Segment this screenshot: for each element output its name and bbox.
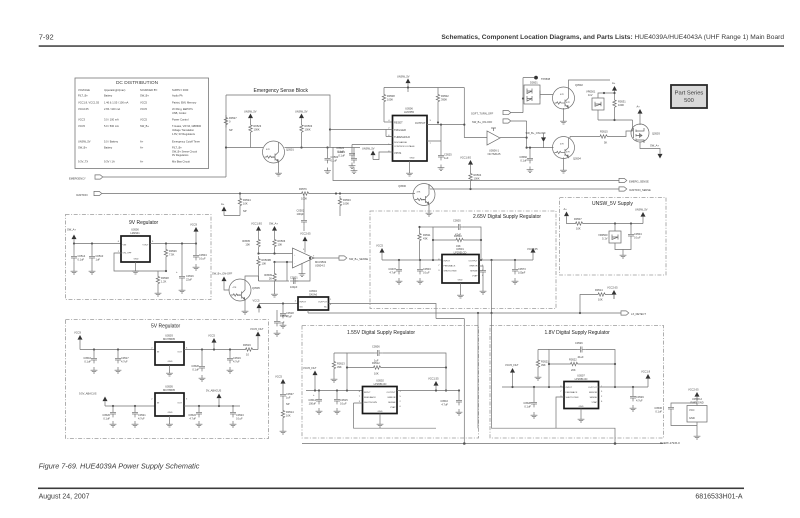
svg-text:100pF: 100pF [518, 271, 526, 275]
wire: divider tops [259, 235, 275, 237]
svg-text:OUT: OUT [177, 403, 182, 405]
svg-text:DISCHARGE: DISCHARGE [394, 141, 408, 144]
junction dots loop [432, 239, 482, 261]
capacitor C0524 (control voltage) 0.1uF [336, 145, 392, 169]
power arrow A+ with resistor R0524 10K NP [221, 194, 251, 216]
svg-text:C0517: C0517 [121, 356, 129, 360]
svg-text:100K: 100K [254, 128, 260, 132]
wire: 1.8V input rail [502, 386, 564, 388]
svg-text:C0504: C0504 [199, 253, 207, 257]
svg-text:FEEDBACK: FEEDBACK [444, 265, 456, 268]
svg-text:R0576: R0576 [299, 187, 307, 191]
svg-text:1uF: 1uF [280, 321, 285, 325]
wire: U0504 output run [329, 304, 465, 319]
node VCC5_FILT (1.55V input) [303, 366, 318, 391]
svg-text:0.1uF: 0.1uF [103, 417, 110, 421]
svg-text:LX_DETECT: LX_DETECT [631, 312, 646, 316]
svg-text:VCC5_FILT: VCC5_FILT [505, 363, 519, 367]
svg-text:6816533H01-A: 6816533H01-A [695, 494, 742, 501]
svg-text:GND: GND [378, 411, 383, 413]
svg-text:C0510: C0510 [440, 399, 448, 403]
svg-text:C0528: C0528 [523, 401, 531, 405]
wire: 5V row1 output rail [184, 349, 243, 351]
buffer U0504 SX0A6 [295, 289, 332, 310]
power arrow VCC1.8 [641, 370, 651, 384]
svg-text:R0526: R0526 [169, 249, 177, 253]
svg-text:SW_B+ Sense Circuit: SW_B+ Sense Circuit [172, 149, 197, 153]
svg-text:LP2951CD: LP2951CD [374, 382, 387, 386]
svg-text:C0437: C0437 [388, 267, 396, 271]
svg-text:SHUTDOWN: SHUTDOWN [566, 397, 579, 399]
capacitor C0537 1uF NP [280, 391, 294, 408]
svg-text:C0536: C0536 [654, 406, 662, 410]
svg-text:CONTROLVOLTAGE: CONTROLVOLTAGE [394, 145, 415, 148]
ground under U0502 [377, 414, 384, 428]
svg-text:R0504: R0504 [474, 173, 482, 177]
svg-text:47K: 47K [560, 94, 564, 96]
svg-text:INPUT: INPUT [444, 261, 451, 263]
svg-text:C0516: C0516 [83, 356, 91, 360]
svg-text:VCC2.65: VCC2.65 [78, 107, 89, 111]
wire: Q0500 collector to sense line [428, 184, 430, 189]
svg-text:100pF: 100pF [290, 285, 298, 289]
svg-text:EMERG_SENSE: EMERG_SENSE [629, 180, 649, 184]
wire: 555 output to buffer [427, 125, 487, 138]
ground under 555 [406, 161, 413, 176]
capacitor C0518 47uF [280, 304, 295, 329]
svg-text:THRESHOLD: THRESHOLD [394, 135, 410, 139]
svg-text:C0520: C0520 [191, 364, 199, 368]
svg-text:INPUT: INPUT [364, 392, 371, 394]
regulator U0503 MC78M05 [151, 334, 188, 366]
svg-text:U0504-2: U0504-2 [315, 264, 326, 268]
wire: C0505 bypass loop [433, 227, 481, 260]
svg-text:47K: 47K [560, 144, 564, 146]
svg-text:R0527: R0527 [229, 116, 237, 120]
power arrow SW_A+ (9V input) [67, 228, 77, 244]
capacitor C0526 .1uF [575, 341, 585, 359]
wire: shutdown run into 1.55V box [354, 319, 465, 444]
junction dots 2.65V out [490, 259, 516, 261]
capacitor C0572 (sense bypass) [479, 266, 486, 294]
transistor Q0505 [229, 279, 260, 301]
svg-text:VOLTAGE: VOLTAGE [78, 88, 90, 92]
wire: Q0504 collector [569, 137, 571, 139]
capacitor C0517 4.7uF [115, 350, 130, 374]
svg-text:VOUT: VOUT [142, 245, 149, 247]
svg-text:R0523: R0523 [254, 124, 262, 128]
capacitor C0560 0.1uF [519, 147, 533, 173]
svg-text:LP2951CD: LP2951CD [575, 377, 588, 381]
svg-text:SW_B+_ON-OFF: SW_B+_ON-OFF [212, 272, 233, 276]
capacitor C0519 4.7uF [227, 350, 242, 374]
svg-text:ERROR: ERROR [470, 266, 478, 268]
svg-text:U0506: U0506 [405, 107, 413, 111]
svg-text:GND: GND [410, 158, 415, 160]
svg-text:C0504: C0504 [634, 232, 642, 236]
svg-text:U0504: U0504 [309, 289, 317, 293]
svg-text:1.46 & 1.55 / 100 mA: 1.46 & 1.55 / 100 mA [104, 101, 129, 105]
capacitor C0515 0.1uF [334, 391, 349, 415]
capacitor C0521 4.7uF [132, 406, 147, 427]
svg-text:R0507: R0507 [574, 217, 582, 221]
power arrow VCC5 (U0504 supply) [253, 299, 262, 313]
junction dots row1 out [201, 348, 231, 350]
svg-text:3.0 / 100 mA: 3.0 / 100 mA [104, 118, 119, 122]
svg-text:R0503B: R0503B [262, 258, 272, 262]
junction dot trigger [437, 121, 439, 123]
power arrow A+ (above Q0503) [637, 105, 643, 126]
svg-text:5V Regulator: 5V Regulator [151, 324, 181, 330]
capacitor C0536 0.1uF [654, 403, 697, 426]
op-amp timer U0506 LMC555 [388, 107, 431, 162]
node SOFT_TURN_OFF [471, 78, 534, 116]
resistor R0506 10K [273, 237, 286, 250]
svg-text:TRIGGER: TRIGGER [394, 128, 406, 132]
resistor R0502 390K [436, 88, 449, 123]
capacitor C0516 22uF [176, 244, 194, 294]
svg-text:0.1uF: 0.1uF [337, 150, 344, 154]
svg-text:100pF: 100pF [297, 212, 305, 216]
junction dots row2 in [112, 405, 136, 407]
power arrow A+ (top right) [612, 81, 617, 98]
svg-text:VCC5: VCC5 [253, 299, 260, 303]
svg-text:C0573: C0573 [518, 267, 526, 271]
svg-text:August 24, 2007: August 24, 2007 [39, 494, 90, 501]
svg-text:0.1uF: 0.1uF [340, 402, 347, 406]
svg-text:4.7uF: 4.7uF [138, 417, 145, 421]
capacitor C0505 47uF [453, 219, 463, 237]
resistor R0512 10K [371, 361, 384, 376]
svg-text:R0502: R0502 [441, 94, 449, 98]
svg-text:47K: 47K [233, 287, 237, 289]
wire: block bottom rail [285, 147, 361, 149]
svg-text:9V Regulator: 9V Regulator [129, 220, 159, 226]
svg-text:VCC5: VCC5 [78, 124, 85, 128]
ground under Q0504 [560, 158, 567, 174]
svg-text:10K: 10K [576, 227, 581, 231]
capacitor C0506 1uF [372, 345, 382, 363]
svg-text:0.1uF: 0.1uF [338, 154, 345, 158]
svg-text:OUTPUT: OUTPUT [387, 392, 397, 394]
transistor Q0504 [553, 137, 582, 161]
svg-text:VTAP: VTAP [472, 275, 478, 278]
svg-text:R0531: R0531 [618, 100, 626, 104]
junction dot buffer out [526, 137, 528, 139]
svg-text:Emergency Cutoff Timer: Emergency Cutoff Timer [172, 140, 200, 144]
junction dots on block rail [225, 128, 331, 148]
svg-text:T-Gates, V/F'16, GB8600: T-Gates, V/F'16, GB8600 [172, 124, 202, 128]
svg-text:C0525: C0525 [444, 153, 452, 157]
svg-text:VCC3: VCC3 [78, 118, 85, 122]
svg-text:SW_A+: SW_A+ [269, 222, 278, 226]
junction dots loop 1.55 [346, 366, 447, 391]
svg-text:Schematics, Component Location: Schematics, Component Location Diagrams,… [441, 34, 784, 41]
power arrow UNSW_5V (above 555) [397, 75, 411, 88]
node EMERGENCY [69, 175, 226, 181]
svg-text:9.5V_ABACUS: 9.5V_ABACUS [79, 392, 97, 396]
svg-text:A+: A+ [221, 202, 225, 206]
capacitor C0525 1uF [427, 125, 452, 171]
svg-text:10K: 10K [245, 243, 250, 247]
wire: 9V input rail [74, 243, 121, 245]
svg-text:GND: GND [579, 406, 584, 408]
svg-text:10K: 10K [286, 414, 291, 418]
ground under U0503 [166, 365, 173, 376]
svg-text:R0505: R0505 [242, 239, 250, 243]
svg-text:SOFT_TURN_OFF: SOFT_TURN_OFF [471, 112, 494, 116]
svg-text:Audio PA: Audio PA [172, 94, 183, 98]
svg-text:NP: NP [229, 128, 233, 132]
regulator U0501 LP2951CD [438, 247, 484, 283]
svg-text:MAEPF-27945-O: MAEPF-27945-O [660, 441, 680, 445]
resistor R0503 100K [300, 123, 313, 148]
power arrow VCC2.65 with resistor R0514 10K (LX net) [580, 286, 618, 314]
capacitor C0501 100pF (feedback) [290, 276, 298, 290]
svg-text:4.7uF: 4.7uF [121, 360, 128, 364]
svg-text:C0523: C0523 [236, 413, 244, 417]
svg-text:VCC2.65: VCC2.65 [300, 232, 311, 236]
junction dot C0518 tap [282, 302, 284, 304]
svg-text:0.1uF: 0.1uF [84, 360, 91, 364]
wire: C0526 bypass loop 1.8V [549, 350, 615, 388]
svg-text:.01uF: .01uF [577, 355, 584, 359]
capacitor C0514B 100uF [308, 391, 322, 415]
svg-text:VCC1.8: VCC1.8 [641, 370, 651, 374]
svg-text:C0522: C0522 [188, 413, 196, 417]
svg-text:Patriot, EMI, Memory: Patriot, EMI, Memory [172, 101, 197, 105]
svg-text:SENSE: SENSE [470, 271, 478, 273]
power arrow VCC5 (2.65V input) [376, 244, 385, 261]
svg-text:R0522: R0522 [569, 358, 577, 362]
svg-text:5.0 / Battery: 5.0 / Battery [104, 140, 119, 144]
svg-text:GND: GND [168, 412, 173, 414]
svg-text:C0514: C0514 [78, 254, 86, 258]
svg-text:7-92: 7-92 [39, 33, 54, 42]
wire: gate rail to Q0503 [598, 120, 633, 131]
zener VR0500 5.1V [598, 224, 623, 250]
wire: opamp - input / feedback [259, 258, 311, 281]
svg-text:22uF: 22uF [186, 278, 192, 282]
svg-text:A+: A+ [637, 105, 641, 109]
resistor R0523 100K [249, 123, 262, 148]
svg-text:OUTPUT: OUTPUT [469, 261, 479, 263]
svg-text:UNSW_5V: UNSW_5V [78, 140, 91, 144]
wire: VCC5 to U0504 input [259, 303, 298, 305]
svg-text:5V_ABACUS: 5V_ABACUS [206, 389, 222, 393]
svg-text:SHUTDOWN: SHUTDOWN [444, 271, 457, 273]
svg-text:4.7uF: 4.7uF [441, 403, 448, 407]
capacitor C0503 0.1uF [417, 260, 432, 284]
svg-text:0.1uF: 0.1uF [78, 258, 85, 262]
svg-text:UNSW_5V: UNSW_5V [397, 75, 410, 79]
resistor R0508 100K [382, 88, 395, 123]
DC DISTRIBUTION table [75, 78, 209, 169]
wire: 9V output rail [150, 243, 196, 245]
capacitor C0437 4.7uF [388, 260, 402, 284]
svg-text:5K: 5K [604, 141, 607, 145]
regulator U0507 LP2951CD [560, 374, 603, 409]
svg-text:1.2K: 1.2K [161, 280, 167, 284]
svg-text:C0519: C0519 [233, 356, 241, 360]
power arrow UNSW_5V (mid of block) [295, 110, 308, 123]
svg-text:R0512: R0512 [372, 361, 380, 365]
capacitor C0522 4.7uF [188, 406, 202, 427]
node VCC5_FILT (arrow near 5V box) [250, 327, 264, 350]
node SW_B+_ON-OFF (buffer enable) [472, 119, 527, 148]
svg-text:VR0500: VR0500 [598, 233, 608, 237]
ground under U0500 [132, 262, 139, 274]
wire: Q0505 collector [245, 276, 259, 281]
svg-text:SW_B+_ON-OFF: SW_B+_ON-OFF [472, 120, 493, 124]
wire: trigger net into 555 [330, 130, 393, 137]
svg-text:C0503: C0503 [423, 267, 431, 271]
svg-text:R0503: R0503 [343, 198, 351, 202]
svg-text:LMC555: LMC555 [404, 110, 414, 114]
svg-text:U0507: U0507 [577, 374, 585, 378]
svg-text:VCC1.8G: VCC1.8G [460, 156, 471, 160]
junction dots 1.55 out [435, 389, 460, 391]
power arrow VCC5 [208, 334, 217, 350]
svg-text:VCC5_FILT: VCC5_FILT [303, 366, 317, 370]
svg-text:100K: 100K [387, 98, 393, 102]
svg-text:47K: 47K [266, 149, 270, 151]
svg-text:TP0508: TP0508 [541, 77, 551, 81]
svg-text:4.7uF: 4.7uF [389, 271, 396, 275]
wire: 5V row2 output rail [184, 405, 240, 407]
svg-text:NC7SZ125: NC7SZ125 [488, 152, 501, 156]
svg-text:EMERGENCY: EMERGENCY [69, 177, 86, 181]
9V Regulator block box [66, 215, 212, 300]
svg-text:VTAP: VTAP [591, 401, 597, 404]
svg-text:VCC5: VCC5 [140, 101, 147, 105]
svg-text:R0508: R0508 [387, 94, 395, 98]
svg-text:GND: GND [689, 416, 695, 420]
svg-text:FILT_B+: FILT_B+ [78, 94, 88, 98]
regulator U0505 MC78M05 [151, 385, 188, 417]
node SW_B+_SENSE [314, 256, 368, 261]
transistor Q0500 [398, 184, 435, 206]
svg-text:D0501: D0501 [530, 81, 538, 85]
capacitor C0504B 0.1uF [623, 224, 642, 250]
svg-text:Q0501: Q0501 [286, 148, 294, 152]
resistor R0515 5K [570, 130, 633, 145]
regulator U0502 LP2951CD [359, 379, 402, 414]
svg-text:VCC: VCC [689, 408, 695, 412]
svg-text:2.65 / 100 mA: 2.65 / 100 mA [104, 107, 120, 111]
svg-text:RESET: RESET [394, 120, 403, 124]
node LX_DETECT [308, 310, 646, 316]
svg-text:C0537: C0537 [286, 392, 294, 396]
svg-text:R0514: R0514 [595, 288, 603, 292]
svg-text:R0528: R0528 [161, 276, 169, 280]
UNSW_5V Supply block box [560, 198, 667, 276]
node IGNITION [76, 191, 415, 197]
svg-text:Figure 7-69. HUE4039A Power Su: Figure 7-69. HUE4039A Power Supply Schem… [39, 462, 200, 471]
svg-text:Battery: Battery [104, 146, 113, 150]
resistor R0519 (series to VCC5_FILT) [243, 343, 258, 357]
wire: 5V row1 input rail [80, 349, 155, 351]
wire: emergency block outline [226, 95, 330, 177]
svg-text:ERROR: ERROR [388, 397, 396, 399]
svg-text:U0503: U0503 [165, 334, 173, 338]
svg-text:VPOS: VPOS [394, 151, 401, 155]
svg-text:R0503: R0503 [305, 124, 313, 128]
svg-text:0.1uF: 0.1uF [199, 257, 206, 261]
transistor Q0501 [263, 141, 295, 163]
svg-text:I(operating)/I(max): I(operating)/I(max) [104, 88, 125, 92]
node VCC5_FILT (1.8V input) [505, 363, 519, 387]
ground under Q0500 [426, 205, 433, 216]
svg-text:R0510: R0510 [454, 234, 462, 238]
svg-text:39K: 39K [541, 363, 546, 367]
svg-text:GND: GND [134, 259, 139, 261]
svg-text:U0500: U0500 [131, 228, 139, 232]
ground under Q0505 [242, 300, 249, 314]
node IGNITION_SENSE [430, 187, 651, 192]
svg-text:NC: NC [324, 307, 328, 309]
svg-text:2K: 2K [269, 277, 272, 281]
svg-text:SW_B+_ON-OFF: SW_B+_ON-OFF [526, 131, 547, 135]
svg-text:INPUT: INPUT [300, 302, 307, 304]
svg-text:43K: 43K [423, 237, 428, 241]
svg-text:OUTPUT: OUTPUT [415, 121, 426, 125]
svg-text:OUTPUT: OUTPUT [318, 302, 328, 304]
svg-text:R0513: R0513 [337, 362, 345, 366]
svg-text:NP: NP [286, 402, 290, 406]
svg-text:Power Control: Power Control [172, 118, 189, 122]
resistor R0528 1.2K [114, 253, 169, 296]
svg-text:C0514: C0514 [308, 398, 316, 402]
capacitor C0579 1uF [274, 310, 289, 336]
svg-text:7.5K: 7.5K [169, 253, 175, 257]
node SW_B+_ON-OFF (Q0505 base) [212, 272, 233, 291]
resistor R0527 [224, 115, 237, 132]
svg-text:USB, Codec: USB, Codec [172, 111, 187, 115]
power arrow VCC2.65 (2.65V out) [527, 247, 538, 257]
svg-text:UNSW_5V: UNSW_5V [295, 110, 308, 114]
svg-text:1uF: 1uF [444, 156, 449, 160]
junction dots 9V output [165, 242, 197, 244]
junction dots 1.55 in [314, 389, 348, 391]
svg-text:VCC1.55: VCC1.55 [428, 377, 439, 381]
svg-text:VCC5: VCC5 [140, 118, 147, 122]
svg-text:VCC5_FILT: VCC5_FILT [250, 327, 264, 331]
junction dots 2.65V in [398, 259, 434, 261]
svg-text:47K: 47K [237, 295, 241, 297]
capacitor C0520 0.1uF [191, 350, 205, 382]
junction dots [257, 252, 275, 254]
wire: sense drop to LX net [491, 260, 493, 313]
svg-text:MC33502: MC33502 [315, 260, 327, 264]
power arrow UNSW_5V (UNSW out) [635, 208, 648, 222]
transistor Q0503 (P-FET) [631, 124, 660, 143]
Part Series 500 box [671, 85, 707, 108]
svg-text:R0514: R0514 [286, 410, 294, 414]
resistor R0576 100K (series in ignition line) [299, 187, 312, 201]
svg-text:1uF: 1uF [286, 396, 291, 400]
svg-text:0.1uF: 0.1uF [331, 159, 338, 163]
junction dots 1.8 in [511, 386, 550, 388]
svg-text:GND: GND [458, 280, 463, 282]
svg-text:10K: 10K [262, 262, 267, 266]
svg-text:UNSW_5V Supply: UNSW_5V Supply [592, 201, 633, 207]
svg-text:SW_B+: SW_B+ [78, 146, 87, 150]
wire: UNSW rail [586, 221, 644, 224]
transistor Q0502 [553, 83, 584, 109]
ground under U0505 [166, 416, 173, 427]
svg-text:47K: 47K [566, 152, 570, 154]
